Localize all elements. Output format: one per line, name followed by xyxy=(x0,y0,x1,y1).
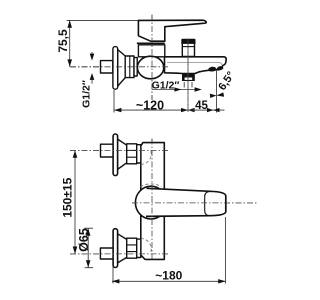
mounting nut (side) xyxy=(125,56,134,78)
body slab front xyxy=(141,143,165,260)
top flange escutcheon xyxy=(117,139,126,170)
svg-text:150±15: 150±15 xyxy=(60,177,74,217)
arrows ~180 xyxy=(112,279,119,283)
extension line left ~120 xyxy=(113,90,115,113)
bowtie arrows at outlet centerline xyxy=(181,108,188,112)
svg-text:45: 45 xyxy=(195,100,208,112)
handle hub front xyxy=(135,186,166,219)
dimension ~180 line xyxy=(112,280,226,282)
hidden cartridge arc xyxy=(141,184,162,187)
handle grip front xyxy=(145,189,226,216)
hidden inlet arc bottom xyxy=(140,238,151,251)
svg-text:Ø65: Ø65 xyxy=(77,228,91,252)
svg-text:~120: ~120 xyxy=(136,98,164,112)
G1/2 thread arrows xyxy=(91,52,93,58)
bottom mounting nut xyxy=(127,238,137,258)
svg-text:75,5: 75,5 xyxy=(56,29,70,53)
top mounting nut xyxy=(127,144,137,164)
arrows 150±15 xyxy=(73,150,78,157)
centerline vertical body xyxy=(151,139,153,261)
outlet centerline xyxy=(187,39,189,113)
dimension ~120 line xyxy=(114,109,188,111)
svg-text:~180: ~180 xyxy=(155,268,182,282)
centerline handle xyxy=(132,202,257,204)
handle lever paddle xyxy=(138,20,206,41)
spout inner highlight line xyxy=(167,62,222,65)
angle 6,5 extension xyxy=(216,71,218,100)
dimension 75,5 line xyxy=(69,20,71,66)
dimension 75,5 arrows xyxy=(67,20,72,27)
bottom pipe stub xyxy=(100,248,113,259)
cartridge ellipse xyxy=(137,56,163,79)
arrow left ~120 xyxy=(114,108,121,112)
spout body slab xyxy=(165,57,227,74)
bottom connector xyxy=(137,239,141,257)
centerline overlays xyxy=(70,15,257,261)
hidden inlet arc top xyxy=(140,151,151,164)
dimension 45 line xyxy=(188,109,225,111)
extension line top of handle xyxy=(67,19,139,21)
inlet pipe G1/2 xyxy=(101,61,113,73)
shower outlet stub xyxy=(182,74,195,82)
wall flange escutcheon (side) xyxy=(118,50,126,87)
collar ring under handle xyxy=(137,42,165,44)
extension line right 45 xyxy=(216,99,218,113)
body upper block xyxy=(138,45,164,57)
bottom flange escutcheon xyxy=(117,234,126,263)
bowtie arrows 45 xyxy=(207,108,213,112)
top pipe stub xyxy=(101,144,114,157)
washer ring xyxy=(134,58,137,76)
centerline bottom union xyxy=(70,253,168,255)
dimension 150±15 line xyxy=(74,150,76,254)
top connector xyxy=(137,145,141,163)
Ø65 extension ticks xyxy=(85,228,93,268)
Ø65 arrows xyxy=(86,229,91,236)
dimension Ø65 line xyxy=(87,229,89,268)
centerline vertical body axis xyxy=(151,15,153,101)
angle 6,5 arrows xyxy=(210,94,217,98)
svg-text:G1/2″: G1/2″ xyxy=(81,80,93,108)
leader underline with arrow xyxy=(152,89,196,91)
centerline top union xyxy=(70,149,168,151)
centerline wall pipe axis xyxy=(70,66,168,68)
grip end cap inner xyxy=(205,191,210,215)
diverter knob xyxy=(182,40,194,57)
extension lines ~180 xyxy=(113,217,225,284)
aerator at spout tip xyxy=(208,67,216,71)
